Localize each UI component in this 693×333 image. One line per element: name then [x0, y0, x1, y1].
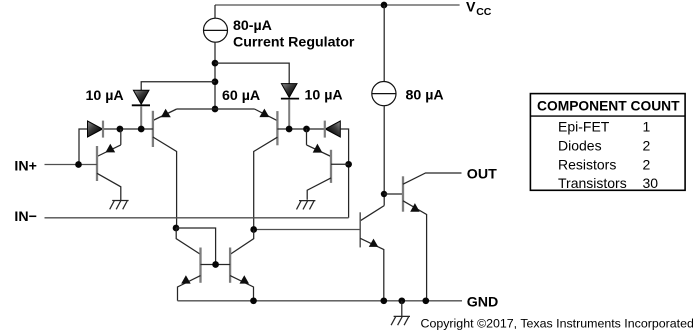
node L1 [117, 126, 124, 133]
wire Q4 collector [230, 230, 254, 255]
arrow Q3 emitter [181, 275, 191, 283]
svg-text:80 µA: 80 µA [406, 87, 444, 103]
svg-text:80-µA: 80-µA [233, 18, 272, 34]
diode D4 right 10uA [281, 84, 299, 99]
wire mirror base tie [201, 264, 231, 266]
wire Q6 emitter diagonal [307, 145, 332, 157]
node GND mirror dot [250, 297, 257, 304]
transistor Q5 base bar [276, 111, 278, 145]
wire right diode row Q5 base to D2 cathode [277, 128, 325, 130]
wire Q5 collector to node E2 [254, 137, 278, 229]
svg-text:2: 2 [643, 157, 651, 173]
svg-text:Copyright ©2017, Texas Instrum: Copyright ©2017, Texas Instruments Incor… [421, 316, 693, 330]
svg-text:CC: CC [476, 6, 492, 18]
diode D3 left 10uA [132, 90, 150, 105]
wire GND rail [178, 300, 463, 302]
svg-text:GND: GND [467, 294, 499, 310]
wire Q2 emitter diagonal [153, 109, 177, 121]
node dot3 60uA node [212, 106, 219, 113]
svg-text:2: 2 [643, 138, 651, 154]
node E2 [250, 226, 257, 233]
wire Q1 emitter vertical [120, 129, 122, 145]
node dot1 [212, 60, 219, 67]
svg-text:IN−: IN− [14, 209, 36, 225]
svg-text:10 µA: 10 µA [86, 88, 124, 104]
ground G3 chassis [391, 316, 410, 325]
svg-text:Transistors: Transistors [558, 175, 627, 191]
node E1 [173, 225, 180, 232]
transistor Q6 base bar [330, 150, 332, 183]
wire Q1 emitter diagonal [97, 145, 121, 157]
wire D1 anode to IN+ node [79, 129, 87, 165]
diode D1 left horizontal [88, 121, 104, 138]
wire I2 bottom vertical to Q7 collector join [383, 106, 385, 206]
svg-text:Diodes: Diodes [558, 138, 602, 154]
svg-text:Resistors: Resistors [558, 157, 616, 173]
wire Q4 emitter to GND rail [230, 276, 253, 301]
wire E1 to mirror base tie column [176, 228, 216, 265]
node Q8 base junction [381, 191, 387, 197]
wire 60uA node horizontals to Q2 and Q5 emitters [177, 108, 255, 110]
wire ground stub [401, 301, 403, 317]
wire left diode row D1 cathode to Q2 base [103, 128, 153, 130]
node C Q6 base junction [345, 161, 352, 168]
wire 80uA source upper lead [383, 5, 385, 82]
diode D2 right horizontal [325, 121, 341, 138]
svg-text:30: 30 [643, 175, 659, 191]
arrow Q5 emitter [259, 109, 269, 118]
node dot2 [212, 78, 219, 85]
transistor Q8 base bar [402, 176, 404, 211]
svg-text:1: 1 [643, 119, 651, 135]
svg-text:OUT: OUT [467, 167, 497, 183]
table COMPONENT COUNT box [530, 94, 685, 191]
wire Q7 base from node E2 [254, 229, 361, 231]
wire Q6 collector to ground G2 [307, 178, 331, 200]
svg-text:COMPONENT COUNT: COMPONENT COUNT [537, 98, 680, 113]
current source I2 80uA [372, 82, 396, 106]
wire D2 anode corner down to IN- end [341, 129, 349, 218]
node B [303, 126, 310, 133]
arrow Q7 emitter [369, 239, 379, 247]
wire branch left to D3 [141, 82, 215, 91]
node GND Q8 dot [422, 297, 429, 304]
wire D3 cathode to node L2 [140, 106, 142, 129]
wire center column I1 bottom to 60uA node [214, 42, 216, 109]
svg-text:Epi-FET: Epi-FET [558, 119, 610, 135]
arrow Q2 emitter [161, 109, 171, 117]
wire Q5 emitter diagonal [255, 109, 278, 121]
arrow Q6 emitter [313, 144, 323, 153]
wire Q3 emitter to GND rail [178, 276, 201, 301]
node GND stub dot [398, 297, 405, 304]
wire Q8 collector to OUT [403, 173, 462, 184]
table header divider [530, 115, 685, 117]
svg-text:Current Regulator: Current Regulator [233, 34, 355, 50]
wire Q3 collector [176, 228, 200, 254]
wire Q6 base [331, 163, 349, 165]
wire Q8 emitter to GND [403, 201, 427, 301]
transistor Q1 base bar [96, 146, 98, 181]
svg-text:IN+: IN+ [14, 158, 36, 174]
wire Q7 emitter to GND [360, 238, 384, 300]
node A [286, 126, 293, 133]
transistor Q3 base bar [199, 248, 201, 283]
svg-text:10 µA: 10 µA [305, 87, 343, 103]
wire Q1 collector to ground G1 [97, 173, 121, 200]
ground G1 chassis [110, 201, 129, 210]
wire Q2 collector to node E1 [153, 137, 177, 228]
node VCC branch dot [381, 2, 388, 9]
wire VCC left drop to current regulator [214, 5, 216, 18]
wire Q8 base [384, 193, 403, 195]
wire Q6 emitter vertical [306, 129, 308, 145]
node base tie dot [212, 261, 219, 268]
arrow Q1 emitter [106, 144, 116, 153]
transistor Q7 base bar [359, 212, 361, 247]
wire branch right to D4 [215, 63, 289, 84]
arrow Q8 emitter [410, 203, 420, 212]
wire D4 cathode to node A [288, 99, 290, 129]
node GND Q7 dot [380, 297, 387, 304]
ground G2 chassis [297, 201, 316, 210]
svg-text:V: V [466, 0, 476, 16]
wire Q7 collector diagonal [360, 206, 384, 221]
transistor Q4 base bar [229, 248, 231, 283]
current source I1 80-uA current regulator [204, 18, 228, 42]
svg-text:60 µA: 60 µA [222, 88, 260, 104]
node L2 [138, 126, 145, 133]
transistor Q2 base bar [152, 111, 154, 147]
wire IN+ lead [45, 164, 98, 166]
wire VCC rail [215, 4, 460, 6]
node IN+ dot [75, 161, 82, 168]
wire IN- rail [45, 217, 349, 219]
arrow Q4 emitter [240, 275, 250, 283]
